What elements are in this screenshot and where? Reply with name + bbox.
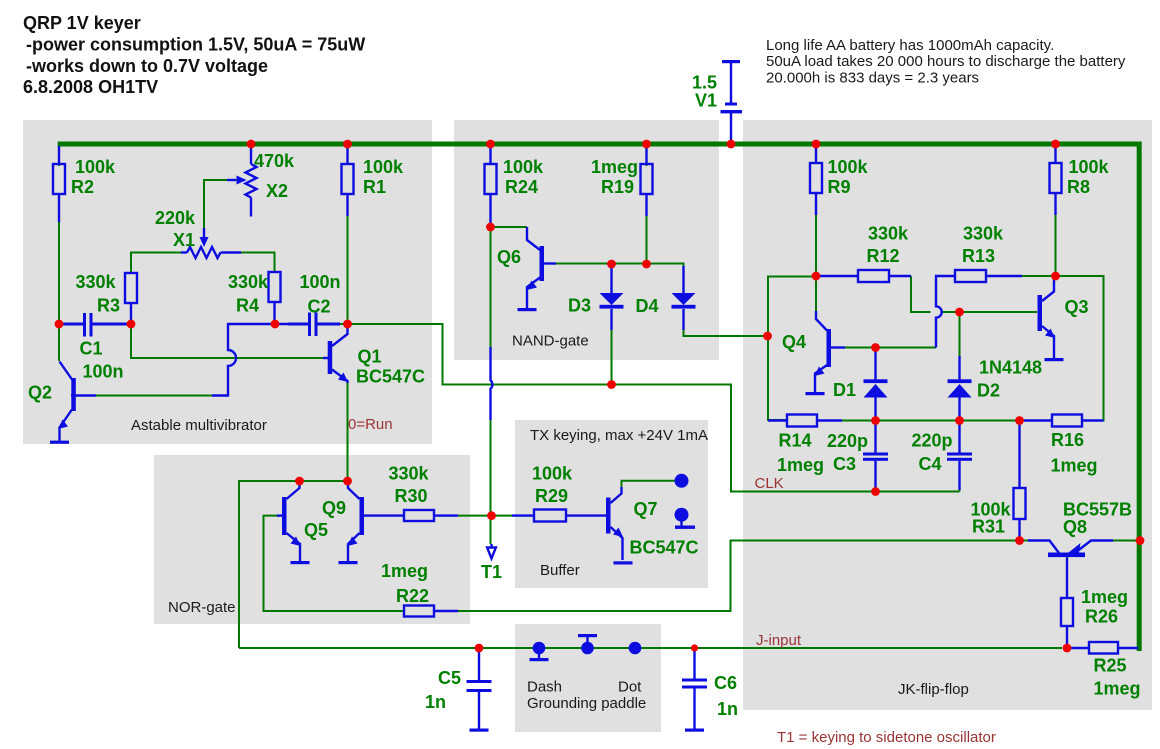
value label Q7 (630, 499, 699, 558)
svg-text:C1: C1 (80, 339, 103, 359)
svg-text:1meg: 1meg (1051, 456, 1098, 476)
resistor R19 (641, 146, 653, 216)
wire net R12 right to Q3 base row (911, 276, 1037, 312)
junction C6 J-input (691, 644, 698, 651)
value label R8 (1067, 157, 1110, 197)
value label Q8 (1063, 500, 1132, 538)
battery V1 (721, 60, 743, 142)
svg-text:50uA load takes 20 000 hours t: 50uA load takes 20 000 hours to discharg… (766, 53, 1126, 70)
svg-text:R29: R29 (535, 486, 568, 506)
svg-text:X2: X2 (266, 181, 288, 201)
ground of Q9 (339, 561, 358, 564)
junction bus R24 (486, 140, 495, 149)
header title text (23, 13, 365, 97)
wire net R2-top to bus (58, 146, 60, 166)
wire net R2-bottom / Q2 collector column (58, 193, 60, 361)
junction R4 C2 (271, 320, 280, 329)
junction D2 bottom C4 (955, 416, 964, 425)
svg-text:BC547C: BC547C (630, 538, 699, 558)
wire net C1-left row (59, 323, 83, 325)
junction R26 R25 J (1063, 644, 1072, 653)
resistor R13 (936, 270, 1022, 348)
svg-text:1meg: 1meg (1081, 587, 1128, 607)
svg-text:R22: R22 (396, 586, 429, 606)
svg-text:NOR-gate: NOR-gate (168, 599, 236, 616)
svg-text:D3: D3 (568, 296, 591, 316)
svg-text:Grounding paddle: Grounding paddle (527, 695, 646, 712)
wire net C4 column (959, 398, 961, 492)
wire net C2-right to R1/Q1 collector (317, 146, 348, 333)
svg-text:R9: R9 (828, 177, 851, 197)
gray block: Astable multivibrator (23, 120, 432, 444)
value label R16 (1051, 430, 1098, 476)
resistor R16 (1024, 415, 1104, 427)
svg-text:100k: 100k (828, 157, 869, 177)
junction R3 C1 (127, 320, 136, 329)
transistor Q1 (BC547C) (323, 326, 348, 383)
potentiometer X2 wiper arrow (237, 176, 247, 185)
svg-text:Q2: Q2 (28, 383, 52, 403)
value label C4 (912, 431, 953, 475)
junction NOR top Q9 (343, 477, 352, 486)
diode D3 (600, 266, 624, 330)
svg-text:Q6: Q6 (497, 247, 521, 267)
resistor R14 (768, 415, 842, 427)
wire net NOR top row (239, 481, 348, 648)
wire net Q8 base to R26 (1066, 557, 1068, 648)
gray block: JK-flip-flop (743, 120, 1152, 710)
junction R31 Q8 (1015, 536, 1024, 545)
svg-text:20.000h is 833 days = 2.3 year: 20.000h is 833 days = 2.3 years (766, 70, 979, 87)
wire net diode bottom row R14-R16 (816, 420, 1052, 422)
svg-text:R2: R2 (71, 177, 94, 197)
svg-text:Q4: Q4 (782, 332, 806, 352)
wire V+ bus (1.5V rail, thick) (58, 144, 1140, 651)
wire net R31 column (1019, 421, 1021, 541)
wire net Q6 base to D3 D4 tops (546, 264, 684, 293)
resistor R22 (404, 606, 458, 617)
svg-text:-power consumption 1.5V, 50uA: -power consumption 1.5V, 50uA = 75uW (26, 35, 365, 55)
ground of Q7 (614, 561, 633, 564)
wire net battery bottom to bus (730, 113, 732, 144)
wire C2-left to Q2-base corner (blue, hop over base wire) (212, 324, 305, 396)
wire net paddle / J-input row (239, 647, 1062, 649)
value label R22 (381, 561, 429, 606)
wire net R3-bottom (130, 303, 132, 324)
diode D1 (864, 350, 888, 421)
ground of Q2 (50, 441, 69, 444)
svg-text:Dot: Dot (618, 679, 642, 696)
value label R1 (363, 157, 404, 197)
wire net R13 left down to Q4 base row (845, 347, 936, 349)
svg-text:1meg: 1meg (591, 157, 638, 177)
svg-text:100k: 100k (363, 157, 404, 177)
value label V1 (692, 73, 717, 111)
svg-text:R8: R8 (1067, 177, 1090, 197)
resistor R1 (342, 146, 354, 216)
svg-text:330k: 330k (868, 224, 909, 244)
transistor Q5 (277, 483, 301, 561)
svg-text:R4: R4 (236, 296, 259, 316)
wire Q2 base lead (72, 394, 97, 396)
value label R19 (591, 157, 638, 197)
resistor R3 (125, 273, 137, 324)
wire net D3 bottom to CLK row (611, 309, 613, 385)
svg-text:X1: X1 (173, 230, 195, 250)
svg-text:100k: 100k (1069, 157, 1110, 177)
junction D4 Q4 column (763, 332, 772, 341)
svg-text:D4: D4 (636, 296, 659, 316)
value label R24 (503, 157, 544, 197)
svg-text:330k: 330k (963, 224, 1004, 244)
diode D2 (948, 356, 972, 420)
wire net X1-right to R4 top (221, 253, 275, 274)
svg-text:R13: R13 (962, 246, 995, 266)
junction bus R9 (812, 140, 821, 149)
svg-text:NAND-gate: NAND-gate (512, 333, 589, 350)
svg-text:CLK: CLK (755, 475, 784, 492)
terminal TX emitter-ground (675, 508, 696, 529)
svg-text:100n: 100n (83, 362, 124, 382)
junction bus R8 (1051, 140, 1060, 149)
transistor Q2 (BC547) (58, 362, 76, 441)
transistor Q8 (BC557B) (1028, 541, 1113, 599)
capacitor C1 (63, 313, 129, 337)
resistor R31 (1014, 422, 1026, 538)
junction Q4 base D1 (871, 343, 880, 352)
wire net R9 column (815, 146, 817, 318)
junction D1 bottom C3 (871, 416, 880, 425)
terminal TX collector (675, 474, 689, 488)
svg-text:R3: R3 (97, 296, 120, 316)
svg-text:Astable multivibrator: Astable multivibrator (131, 417, 267, 434)
wire net R19 bottom (646, 146, 648, 264)
wire net C3 column (875, 398, 877, 492)
svg-text:Dash: Dash (527, 679, 562, 696)
value label R9 (828, 157, 869, 197)
value label R26 (1081, 587, 1128, 627)
svg-text:R12: R12 (867, 246, 900, 266)
junction Q3 base D2 (955, 308, 964, 317)
wire net keyline R24-dot down toward T1 (490, 229, 492, 544)
value label C2 (300, 272, 341, 317)
transistor Q3 (1038, 277, 1056, 358)
value label X2 (254, 151, 295, 201)
resistor R2 (53, 146, 65, 222)
value label Q1 (356, 347, 425, 387)
svg-text:C4: C4 (919, 454, 942, 474)
transistor Q4 (815, 311, 846, 392)
wire net Q1 emitter down to NOR (347, 381, 349, 481)
value label R3 (76, 272, 121, 316)
gray block: NOR-gate (154, 455, 470, 624)
svg-text:Q7: Q7 (634, 499, 658, 519)
wire net R13 right / R8 / Q3 collector / R16 right (987, 276, 1104, 421)
svg-text:C6: C6 (714, 673, 737, 693)
wire net R3-top to X1 left (131, 253, 187, 274)
resistor R9 (810, 146, 822, 215)
wire net keyline dot to R29 (492, 515, 535, 517)
svg-text:R24: R24 (505, 177, 538, 197)
value label R25 (1094, 656, 1141, 699)
transistor Q9 (348, 483, 405, 561)
svg-text:TX keying, max +24V 1mA: TX keying, max +24V 1mA (530, 427, 708, 444)
wire net D4 bottom to Q4 left column (684, 309, 768, 336)
svg-text:220k: 220k (155, 208, 196, 228)
gray block: TX keying / Buffer (515, 420, 708, 588)
svg-text:Long life AA battery has 1000m: Long life AA battery has 1000mAh capacit… (766, 37, 1054, 54)
svg-text:R31: R31 (972, 517, 1005, 537)
svg-text:1meg: 1meg (381, 561, 428, 581)
svg-text:330k: 330k (228, 272, 269, 292)
svg-text:R19: R19 (601, 177, 634, 197)
capacitor C2 (288, 313, 340, 337)
wire net R24 dot to Q6 collector (491, 226, 528, 228)
wire net CLK row (731, 491, 960, 493)
svg-text:R26: R26 (1085, 607, 1118, 627)
wire net R8 column (1055, 146, 1057, 276)
potentiometer X2 (227, 146, 257, 217)
svg-text:470k: 470k (254, 151, 295, 171)
ground of Q3 (1045, 358, 1064, 361)
svg-text:1meg: 1meg (777, 455, 824, 475)
svg-text:T1 = keying to sidetone oscill: T1 = keying to sidetone oscillator (777, 729, 996, 746)
potentiometer X1 (181, 228, 241, 258)
value label R4 (228, 272, 269, 316)
svg-text:220p: 220p (827, 431, 868, 451)
svg-text:BC547C: BC547C (356, 367, 425, 387)
svg-text:Q3: Q3 (1065, 297, 1089, 317)
junction R19 D4 (642, 260, 651, 269)
svg-text:R25: R25 (1094, 656, 1127, 676)
ground of Q6 (518, 308, 537, 311)
junction D3 bottom CLK (607, 380, 616, 389)
svg-text:D1: D1 (833, 380, 856, 400)
ground of Q5 (291, 561, 310, 564)
transistor Q7 (BC547C) (606, 487, 623, 560)
junction bus X2 (247, 140, 256, 149)
diode D4 (672, 266, 696, 330)
resistor R24 (485, 146, 497, 227)
value label R14 (777, 431, 824, 476)
resistor R8 (1050, 146, 1062, 215)
svg-text:R16: R16 (1051, 430, 1084, 450)
junction Q8 emitter bus (1136, 536, 1145, 545)
wire net R4-bottom (274, 302, 276, 324)
junction R24 Q6 (486, 223, 495, 232)
wire net R22 to Q8 collector row (434, 541, 1035, 612)
value label C5 (425, 668, 461, 712)
wire keyline blue section with hop over CLK feed (491, 347, 493, 420)
svg-text:220p: 220p (912, 431, 953, 451)
junction C5 paddle (475, 644, 484, 653)
svg-text:100k: 100k (503, 157, 544, 177)
capacitor C3 (863, 422, 888, 490)
svg-text:J-input: J-input (756, 632, 802, 649)
svg-text:Q8: Q8 (1063, 517, 1087, 537)
value label R30 (389, 464, 430, 507)
svg-text:1N4148: 1N4148 (979, 358, 1042, 378)
svg-text:1n: 1n (425, 692, 446, 712)
value label C3 (827, 431, 868, 474)
junction R13 R8 Q3 (1051, 272, 1060, 281)
wire net D2 top (959, 314, 961, 358)
svg-text:100k: 100k (532, 464, 573, 484)
resistor R12 (820, 270, 911, 282)
gray block: Grounding paddle (515, 624, 661, 732)
potentiometer X1 wiper arrow (200, 237, 209, 247)
wire net Q1 collector to NAND/CLK (with corner x442.5) (349, 324, 958, 492)
resistor R29 (512, 510, 607, 522)
ground of Q4 (806, 392, 825, 395)
value label R29 (532, 464, 573, 507)
junction bus battery (727, 140, 736, 149)
svg-text:JK-flip-flop: JK-flip-flop (898, 681, 969, 698)
junction C3 CLK (871, 487, 880, 496)
svg-text:1.5: 1.5 (692, 73, 717, 93)
wire net Q7 collector to terminal (622, 481, 676, 489)
junction R9 R12 (812, 272, 821, 281)
value label C1 (80, 339, 124, 382)
junction D3 top (607, 260, 616, 269)
junction C1 left (55, 320, 64, 329)
junction bus R1 (343, 140, 352, 149)
wire net Q8 emitter to bus (1090, 540, 1139, 542)
capacitor C5 (467, 650, 492, 732)
wire net X2 wiper to X1 wiper (204, 180, 245, 240)
svg-text:V1: V1 (695, 91, 717, 111)
svg-text:Q9: Q9 (322, 498, 346, 518)
svg-text:330k: 330k (76, 272, 117, 292)
svg-text:0=Run: 0=Run (348, 416, 393, 433)
svg-text:1meg: 1meg (1094, 679, 1141, 699)
terminal paddle grounding lever (578, 634, 597, 654)
svg-text:C3: C3 (833, 454, 856, 474)
svg-text:Q1: Q1 (358, 347, 382, 367)
gray block: NAND-gate (454, 120, 719, 360)
resistor R26 (1061, 598, 1073, 648)
junction R31 top (1015, 416, 1024, 425)
svg-text:1n: 1n (717, 699, 738, 719)
value label R13 (962, 224, 1004, 267)
svg-text:D2: D2 (977, 381, 1000, 401)
svg-text:-works down to 0.7V voltage: -works down to 0.7V voltage (26, 56, 268, 76)
svg-text:Q5: Q5 (304, 520, 328, 540)
svg-text:C2: C2 (308, 297, 331, 317)
svg-text:QRP 1V keyer: QRP 1V keyer (23, 13, 141, 33)
svg-text:6.8.2008 OH1TV: 6.8.2008 OH1TV (23, 77, 158, 97)
junction bus R19 (642, 140, 651, 149)
wire net C2-left row to Q2 base (94, 395, 214, 397)
arrow T1 output (487, 544, 496, 559)
capacitor C4 (947, 422, 972, 490)
wire net left branch to R14 (768, 277, 816, 421)
wire net R30 right to keyline dot (434, 515, 492, 517)
svg-text:T1: T1 (481, 562, 502, 582)
junction Q1 collector (343, 320, 352, 329)
capacitor C6 (682, 650, 707, 732)
wire net Q5 base to R22 (264, 516, 405, 611)
terminal paddle Dot (629, 642, 642, 655)
wire net Q1 base row (131, 324, 329, 358)
resistor R25 (1067, 642, 1138, 654)
battery note text (766, 37, 1126, 87)
value label C6 (714, 673, 738, 719)
svg-text:100n: 100n (300, 272, 341, 292)
terminal paddle Dash (530, 642, 549, 662)
value label X1 (155, 208, 196, 250)
junction NOR top Q5 (295, 477, 304, 486)
resistor R30 (404, 510, 458, 521)
svg-text:R14: R14 (779, 431, 812, 451)
svg-text:R30: R30 (395, 486, 428, 506)
junction keyline R30 R29 (487, 511, 496, 520)
value label R2 (71, 157, 116, 197)
svg-text:R1: R1 (363, 177, 386, 197)
resistor R4 (269, 272, 281, 324)
transistor Q6 (527, 227, 556, 308)
value label R31 (971, 500, 1012, 537)
svg-text:100k: 100k (75, 157, 116, 177)
svg-text:330k: 330k (389, 464, 430, 484)
svg-text:Buffer: Buffer (540, 562, 580, 579)
svg-text:C5: C5 (438, 668, 461, 688)
value label R12 (867, 224, 910, 267)
